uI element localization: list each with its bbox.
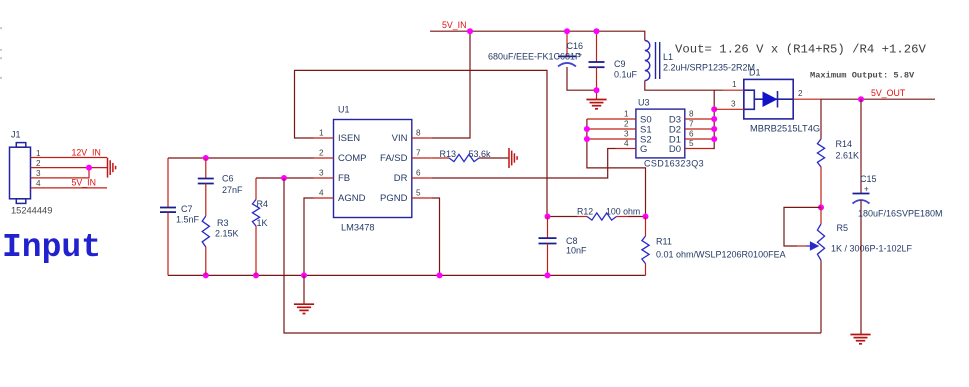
svg-text:R4: R4 — [257, 199, 269, 209]
wire J1 pin3 up to pin2 net — [31, 168, 90, 178]
wire sense node to R12 — [547, 216, 577, 218]
svg-text:3: 3 — [36, 169, 41, 178]
ground below bus — [294, 304, 314, 313]
svg-text:27nF: 27nF — [222, 185, 243, 195]
pin stub U3-2 — [587, 128, 636, 130]
wire R5 bottom lead — [820, 260, 822, 333]
wire C16 bottom lead — [567, 67, 597, 90]
decorative faint edge marks (not labelled further) — [0, 28, 2, 78]
junction C9/C16 bottom — [594, 87, 600, 93]
junction 5V_OUT / C15 — [858, 96, 864, 102]
ground at R13 — [509, 148, 517, 168]
svg-text:D0: D0 — [669, 144, 681, 155]
svg-text:CSD16323Q3: CSD16323Q3 — [644, 159, 704, 169]
pin stub U3-6 — [685, 138, 714, 140]
wire C6 to R3 — [205, 184, 207, 217]
diode D1 MBRB2515LT4G — [744, 79, 793, 119]
svg-text:8: 8 — [689, 110, 694, 119]
wire feedback loop FB to R5 bottom — [284, 178, 821, 333]
svg-text:R3: R3 — [217, 218, 229, 228]
svg-text:ISEN: ISEN — [338, 133, 360, 144]
junction bus / AGND ground — [301, 272, 307, 278]
wire PGND down to ground bus — [432, 198, 440, 275]
svg-text:R11: R11 — [656, 237, 672, 247]
resistor R11 — [642, 236, 649, 264]
junction FB / R4 / feedback — [281, 175, 287, 181]
wire R13 to ground — [479, 157, 509, 159]
resistor R5 potentiometer — [817, 224, 824, 260]
wire AGND ground stub — [303, 275, 305, 304]
pin stub U1-8 — [412, 137, 432, 139]
svg-text:53.6k: 53.6k — [469, 149, 492, 159]
wire DR to U3 gate — [432, 149, 616, 179]
pin stub U3-3 — [587, 138, 636, 140]
svg-text:FB: FB — [338, 173, 350, 184]
capacitor C16 (polarized) — [558, 56, 576, 66]
svg-text:0.01 ohm/WSLP1206R0100FEA: 0.01 ohm/WSLP1206R0100FEA — [656, 250, 786, 260]
svg-text:R14: R14 — [836, 139, 853, 149]
capacitor C6 — [198, 179, 214, 184]
svg-text:1K: 1K — [257, 218, 268, 228]
junction D2 bus — [711, 126, 717, 132]
wire U3 source bus — [587, 119, 646, 217]
svg-text:R12: R12 — [577, 207, 593, 217]
pin stub U1-7 — [412, 157, 432, 159]
svg-text:5V_OUT: 5V_OUT — [871, 88, 906, 98]
svg-text:2.2uH/SRP1235-2R2M: 2.2uH/SRP1235-2R2M — [663, 63, 755, 73]
wire VIN to 5V_IN rail — [432, 31, 470, 138]
pin stub U3-5 — [685, 148, 712, 150]
svg-text:Vout= 1.26 V x (R14+R5) /R4 +1: Vout= 1.26 V x (R14+R5) /R4 +1.26V — [675, 43, 927, 57]
wire FB rail — [256, 177, 314, 179]
svg-text:Input: Input — [2, 229, 101, 266]
pin stub D1-2 — [793, 98, 821, 100]
svg-text:3: 3 — [731, 99, 736, 108]
svg-text:COMP: COMP — [338, 153, 367, 164]
junction R12 left / C8 — [545, 214, 551, 220]
svg-text:+: + — [864, 185, 869, 194]
wire C7 bottom lead — [167, 212, 169, 275]
svg-text:C16: C16 — [567, 41, 584, 51]
ground below C9 — [586, 100, 606, 109]
svg-text:680uF/EEE-FK1C681P: 680uF/EEE-FK1C681P — [488, 52, 581, 62]
svg-text:10nF: 10nF — [566, 246, 587, 256]
resistor R4 — [252, 200, 259, 227]
capacitor C15 (polarized) — [853, 194, 870, 204]
junction D1 bus — [711, 136, 717, 142]
svg-text:C8: C8 — [566, 236, 578, 246]
lead R12 left — [577, 216, 587, 218]
svg-text:C6: C6 — [222, 174, 234, 184]
ground at J1 — [108, 158, 116, 178]
potentiometer R5 wiper arrow — [806, 242, 818, 250]
pin stub U1-6 — [412, 177, 432, 179]
capacitor C9 — [589, 62, 605, 67]
svg-text:0.1uF: 0.1uF — [614, 70, 638, 80]
svg-text:R13: R13 — [440, 149, 457, 159]
svg-text:2.15K: 2.15K — [215, 229, 239, 239]
junction COMP / C6 — [203, 155, 209, 161]
svg-text:FA/SD: FA/SD — [380, 153, 408, 164]
svg-text:1: 1 — [36, 149, 41, 158]
svg-text:C15: C15 — [860, 174, 877, 184]
svg-text:AGND: AGND — [338, 193, 366, 204]
junction S1 bus — [584, 126, 590, 132]
svg-text:1.5nF: 1.5nF — [176, 215, 200, 225]
connector J1 — [10, 143, 31, 204]
svg-text:2: 2 — [319, 149, 324, 158]
op-amp/controller U1 LM3478 box — [334, 120, 412, 218]
wire D1 pin3 to drain bus — [714, 108, 744, 110]
svg-text:2: 2 — [798, 89, 803, 98]
svg-text:5V_IN: 5V_IN — [72, 178, 96, 188]
junction 5V_IN / VIN — [467, 28, 473, 34]
svg-text:VIN: VIN — [392, 133, 408, 144]
junction C9 top on rail — [594, 28, 600, 34]
wire R14 bottom lead — [820, 167, 822, 207]
svg-text:3: 3 — [319, 169, 324, 178]
pin stub U1-4 — [314, 197, 334, 199]
svg-text:2.61K: 2.61K — [836, 151, 860, 161]
svg-text:6: 6 — [689, 129, 694, 138]
svg-text:C7: C7 — [181, 204, 193, 214]
svg-text:+: + — [578, 51, 583, 60]
wire C8 top lead — [547, 217, 549, 239]
svg-text:Maximum Output: 5.8V: Maximum Output: 5.8V — [810, 71, 915, 81]
wire R14 top lead — [820, 99, 822, 139]
svg-text:MBRB2515LT4G: MBRB2515LT4G — [750, 124, 820, 134]
svg-text:4: 4 — [624, 139, 629, 148]
capacitor C8 — [539, 238, 557, 243]
wire C7 top lead — [167, 158, 169, 208]
svg-text:2: 2 — [624, 120, 629, 129]
junction bus / PGND — [437, 272, 443, 278]
svg-text:C9: C9 — [614, 59, 626, 69]
svg-text:4: 4 — [319, 189, 324, 198]
pin stub U1-5 — [412, 197, 432, 199]
junction drain bus / D1 cathode wire — [711, 106, 717, 112]
junction S2 bus — [584, 136, 590, 142]
svg-text:7: 7 — [416, 149, 421, 158]
wire J1 pin4 5V_IN — [31, 187, 108, 189]
ground below C15 — [850, 335, 870, 344]
svg-text:1: 1 — [624, 110, 629, 119]
junction bus / C6-R3 — [203, 272, 209, 278]
pin stub U3-8 — [685, 118, 714, 120]
svg-text:R5: R5 — [837, 223, 849, 233]
pin stub U1-1 — [314, 137, 334, 139]
pin stub D1-1 — [724, 89, 744, 91]
pin stub U1-2 — [314, 157, 334, 159]
wire L1 bottom to D1 anode — [645, 81, 724, 91]
svg-text:D1: D1 — [749, 68, 761, 78]
inductor L1 — [645, 41, 650, 81]
wire R5 wiper to arrow — [797, 245, 806, 247]
wire 5V_OUT rail — [821, 98, 935, 100]
wire AGND down to ground bus — [304, 198, 314, 275]
wire C8 bottom lead — [547, 244, 549, 276]
svg-text:DR: DR — [394, 173, 408, 184]
svg-text:1: 1 — [319, 129, 324, 138]
svg-text:J1: J1 — [11, 130, 21, 140]
wire FA/SD to R13 — [432, 157, 449, 159]
svg-text:L1: L1 — [663, 52, 673, 62]
junction bus / C8 — [545, 272, 551, 278]
wire C15 top lead — [860, 99, 862, 193]
junction R12 right / R11 — [643, 214, 649, 220]
junction C16 top on rail — [564, 28, 570, 34]
junction J1 pins 2-3 — [86, 165, 92, 171]
svg-text:8: 8 — [416, 129, 421, 138]
wire R5 wiper loop — [784, 207, 821, 246]
resistor R3 — [202, 216, 209, 247]
wire 5V_IN rail — [430, 31, 645, 40]
wire R11 bottom lead — [645, 264, 647, 276]
capacitor C7 — [160, 208, 176, 213]
svg-text:3: 3 — [624, 129, 629, 138]
svg-text:6: 6 — [416, 169, 421, 178]
svg-text:100 ohm: 100 ohm — [606, 207, 640, 217]
wire C15 bottom lead — [860, 200, 862, 334]
wire ground bus — [168, 274, 646, 276]
wire J1 pin1 12V_IN — [31, 157, 108, 159]
junction bus / R4 — [253, 272, 259, 278]
svg-text:5: 5 — [689, 139, 694, 148]
wire J1 pin2 to ground — [31, 167, 108, 169]
svg-text:7: 7 — [689, 120, 694, 129]
lead R12 right — [617, 216, 629, 218]
svg-text:LM3478: LM3478 — [341, 223, 375, 233]
junction R14/R5 wiper — [818, 204, 824, 210]
wire C9 bottom lead — [596, 67, 598, 99]
svg-text:2: 2 — [36, 159, 41, 168]
svg-text:U1: U1 — [338, 105, 350, 115]
wire R3 bottom lead — [205, 247, 207, 275]
pin stub U1-3 — [314, 177, 334, 179]
svg-text:5: 5 — [416, 189, 421, 198]
svg-text:15244449: 15244449 — [11, 206, 52, 216]
wire R4 bottom lead — [255, 226, 257, 275]
transistor U3 CSD16323Q3 box — [636, 109, 685, 158]
junction D3 bus — [711, 116, 717, 122]
wire C16 top lead — [566, 31, 568, 56]
wire C9 top lead — [596, 31, 598, 62]
pin stub U3-1 — [587, 118, 636, 120]
resistor R14 — [817, 139, 824, 167]
pin stub U3-7 — [685, 128, 714, 130]
svg-text:PGND: PGND — [380, 193, 408, 204]
svg-text:4: 4 — [36, 179, 41, 188]
svg-text:12V_IN: 12V_IN — [72, 147, 101, 157]
wire R11 top lead — [645, 217, 647, 237]
svg-text:5V_IN: 5V_IN — [442, 20, 466, 30]
wire R12 to R11 top — [628, 216, 646, 218]
wire R4 top lead — [255, 178, 257, 200]
svg-text:1K / 3006P-1-102LF: 1K / 3006P-1-102LF — [831, 244, 913, 254]
pin stub U3-4 — [616, 148, 636, 150]
svg-text:180uF/16SVPE180M: 180uF/16SVPE180M — [858, 209, 943, 219]
svg-text:U3: U3 — [638, 98, 650, 108]
wire ISEN loop up and over to sense node — [295, 70, 548, 216]
wire U3 drain bus — [712, 90, 714, 148]
resistor R12 — [587, 213, 617, 220]
svg-text:1: 1 — [732, 80, 737, 89]
wire R5 top lead — [820, 207, 822, 224]
svg-text:G: G — [640, 144, 647, 155]
wire COMP rail — [168, 157, 314, 159]
resistor R13 — [449, 154, 479, 161]
wire C6 top lead — [205, 158, 207, 179]
